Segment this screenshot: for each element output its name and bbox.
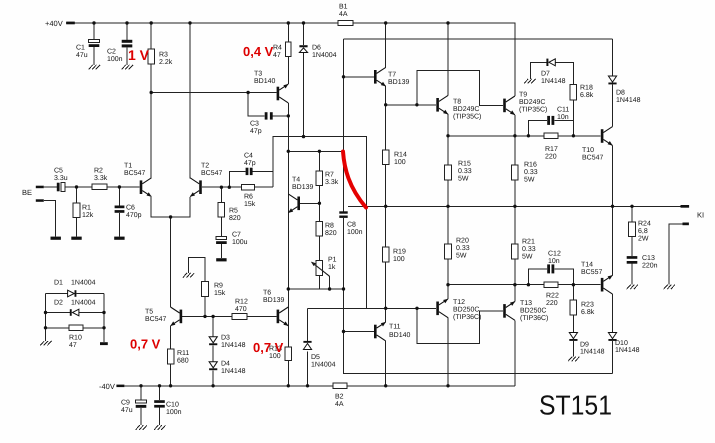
svg-text:D7: D7 [541, 71, 550, 78]
svg-text:6,8: 6,8 [638, 228, 648, 235]
svg-text:R3: R3 [159, 52, 168, 59]
svg-text:2W: 2W [638, 235, 649, 242]
svg-text:C2: C2 [107, 49, 116, 56]
svg-text:(TIP36C): (TIP36C) [520, 314, 548, 322]
svg-text:R12: R12 [235, 299, 248, 306]
svg-text:ST151: ST151 [539, 390, 612, 421]
svg-text:R5: R5 [229, 208, 238, 215]
svg-text:BD250C: BD250C [453, 306, 479, 313]
svg-text:D8: D8 [616, 90, 625, 97]
svg-text:BC547: BC547 [201, 170, 223, 177]
svg-text:T13: T13 [520, 300, 532, 307]
svg-text:R15: R15 [458, 161, 471, 168]
svg-text:(TIP36C): (TIP36C) [453, 313, 481, 321]
svg-text:BD250C: BD250C [520, 307, 546, 314]
svg-text:0.33: 0.33 [524, 169, 538, 176]
svg-text:D6: D6 [312, 45, 321, 52]
svg-text:C11: C11 [557, 107, 569, 114]
svg-text:3.3u: 3.3u [54, 175, 68, 182]
svg-text:T1: T1 [124, 163, 132, 170]
svg-text:0,7 V: 0,7 V [253, 340, 284, 355]
svg-text:T11: T11 [389, 324, 401, 331]
svg-text:1N4004: 1N4004 [71, 300, 96, 307]
svg-text:2.2k: 2.2k [159, 58, 173, 66]
svg-text:47: 47 [273, 52, 281, 59]
svg-text:1k: 1k [328, 263, 336, 271]
svg-text:12k: 12k [82, 211, 94, 219]
svg-text:R17: R17 [545, 146, 558, 153]
svg-text:D2: D2 [54, 300, 63, 307]
svg-text:1N4004: 1N4004 [311, 361, 336, 368]
svg-text:15k: 15k [214, 289, 226, 297]
svg-text:10n: 10n [557, 114, 569, 121]
svg-text:470p: 470p [126, 212, 142, 219]
svg-text:47u: 47u [121, 407, 133, 414]
svg-text:6.8k: 6.8k [581, 308, 595, 316]
svg-text:0,7 V: 0,7 V [130, 337, 161, 352]
svg-text:BD140: BD140 [254, 78, 276, 85]
svg-text:47p: 47p [244, 160, 256, 167]
svg-text:1N4148: 1N4148 [221, 342, 246, 349]
svg-text:1N4148: 1N4148 [615, 347, 640, 354]
svg-text:T8: T8 [453, 99, 461, 106]
svg-text:T5: T5 [145, 309, 153, 316]
svg-text:D1: D1 [54, 280, 63, 287]
svg-text:R16: R16 [524, 162, 537, 169]
svg-text:-40V: -40V [99, 382, 115, 391]
svg-text:D5: D5 [311, 354, 320, 361]
svg-text:100n: 100n [166, 409, 182, 416]
svg-text:100u: 100u [232, 239, 248, 246]
svg-text:100n: 100n [347, 229, 363, 236]
svg-text:1 V: 1 V [128, 47, 150, 63]
svg-text:KI: KI [697, 211, 704, 220]
svg-text:C10: C10 [166, 402, 179, 409]
svg-text:47: 47 [69, 342, 77, 349]
svg-text:C1: C1 [76, 45, 85, 52]
svg-text:BC547: BC547 [124, 170, 146, 177]
svg-text:0.33: 0.33 [456, 245, 470, 252]
svg-text:BE: BE [22, 188, 32, 197]
svg-text:BC557: BC557 [581, 269, 603, 276]
svg-text:4A: 4A [339, 11, 348, 18]
svg-text:100: 100 [394, 159, 406, 166]
svg-text:220n: 220n [642, 262, 658, 269]
svg-text:820: 820 [325, 230, 337, 237]
svg-text:BD139: BD139 [292, 184, 314, 191]
svg-text:0.33: 0.33 [522, 246, 536, 253]
svg-text:BC547: BC547 [582, 154, 604, 161]
svg-text:R14: R14 [394, 152, 407, 159]
svg-text:1N4148: 1N4148 [580, 348, 605, 355]
svg-text:D4: D4 [221, 361, 230, 368]
svg-text:5W: 5W [458, 175, 469, 182]
svg-text:220: 220 [546, 300, 558, 307]
svg-text:C3: C3 [250, 121, 259, 128]
svg-text:T3: T3 [254, 71, 262, 78]
svg-text:BC547: BC547 [145, 316, 167, 323]
svg-text:0.33: 0.33 [458, 168, 472, 175]
svg-text:T14: T14 [581, 262, 593, 269]
svg-text:C4: C4 [244, 153, 253, 160]
svg-text:B1: B1 [339, 4, 348, 11]
svg-text:R10: R10 [69, 335, 82, 342]
svg-text:47p: 47p [250, 128, 262, 135]
svg-text:680: 680 [177, 357, 189, 364]
svg-text:6.8k: 6.8k [580, 91, 594, 99]
svg-text:3.3k: 3.3k [325, 178, 339, 186]
svg-text:C5: C5 [54, 168, 63, 175]
svg-text:BD140: BD140 [389, 332, 411, 339]
svg-text:R8: R8 [325, 223, 334, 230]
svg-text:C6: C6 [126, 205, 135, 212]
svg-text:100: 100 [393, 256, 405, 263]
svg-text:R18: R18 [580, 85, 593, 92]
svg-text:C12: C12 [548, 251, 561, 258]
svg-text:220: 220 [545, 153, 557, 160]
svg-text:1N4148: 1N4148 [541, 78, 566, 85]
svg-text:5W: 5W [456, 252, 467, 259]
svg-text:T10: T10 [582, 147, 594, 154]
svg-text:R6: R6 [244, 194, 253, 201]
svg-text:P1: P1 [328, 257, 337, 264]
svg-text:R9: R9 [214, 283, 223, 290]
svg-text:3.3k: 3.3k [94, 174, 108, 182]
svg-text:BD249C: BD249C [453, 106, 479, 113]
svg-text:T9: T9 [519, 92, 527, 99]
svg-text:470: 470 [235, 306, 247, 313]
svg-text:15k: 15k [244, 200, 256, 208]
svg-text:100n: 100n [107, 56, 123, 63]
svg-text:D3: D3 [221, 335, 230, 342]
svg-text:R19: R19 [393, 249, 406, 256]
svg-text:5W: 5W [522, 253, 533, 260]
svg-text:R21: R21 [522, 239, 535, 246]
svg-text:5W: 5W [524, 176, 535, 183]
svg-text:R23: R23 [581, 302, 594, 309]
svg-text:0,4 V: 0,4 V [243, 44, 274, 59]
svg-text:R24: R24 [638, 221, 651, 228]
svg-text:R1: R1 [82, 205, 91, 212]
svg-text:T7: T7 [388, 72, 396, 79]
svg-text:C7: C7 [232, 232, 241, 239]
svg-text:BD249C: BD249C [519, 99, 545, 106]
svg-text:R2: R2 [94, 168, 103, 175]
svg-text:4A: 4A [335, 401, 344, 408]
svg-text:10n: 10n [548, 258, 560, 265]
svg-text:1N4004: 1N4004 [312, 52, 337, 59]
svg-text:BD139: BD139 [388, 79, 410, 86]
svg-text:T4: T4 [292, 177, 300, 184]
svg-text:T12: T12 [453, 299, 465, 306]
svg-text:+40V: +40V [45, 19, 63, 28]
svg-text:(TIP35C): (TIP35C) [453, 112, 481, 120]
svg-text:47u: 47u [76, 52, 88, 59]
svg-text:C9: C9 [121, 400, 130, 407]
svg-text:1N4148: 1N4148 [221, 368, 246, 375]
svg-text:1N4004: 1N4004 [71, 280, 96, 287]
svg-text:R20: R20 [456, 238, 469, 245]
svg-text:R22: R22 [546, 293, 559, 300]
svg-text:R7: R7 [325, 172, 334, 179]
svg-text:B2: B2 [335, 394, 344, 401]
svg-text:T6: T6 [263, 290, 271, 297]
svg-text:T2: T2 [201, 163, 209, 170]
svg-text:BD139: BD139 [263, 297, 285, 304]
svg-text:820: 820 [229, 215, 241, 222]
svg-text:R11: R11 [177, 350, 189, 357]
svg-text:C8: C8 [347, 222, 356, 229]
svg-text:(TIP35C): (TIP35C) [519, 105, 547, 113]
svg-text:R4: R4 [273, 45, 282, 52]
svg-text:C13: C13 [642, 255, 655, 262]
svg-text:1N4148: 1N4148 [616, 97, 641, 104]
